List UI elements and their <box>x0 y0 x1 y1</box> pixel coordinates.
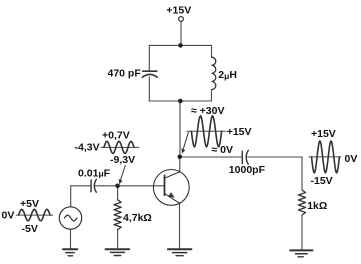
ground (emitter) <box>168 249 192 255</box>
svg-text:+5V: +5V <box>20 198 39 210</box>
svg-text:0V: 0V <box>345 153 358 165</box>
wire: input source to 0.01uF cap <box>71 186 91 207</box>
capacitor 1000pF (plates) <box>241 151 243 163</box>
wire: 4.7k resistor to ground <box>117 230 119 248</box>
waveform: output axis <box>309 156 341 158</box>
wire: emitter lead vertical to ground <box>179 203 181 249</box>
waveform: collector axis <box>187 130 226 132</box>
ground (4.7k resistor) <box>106 249 130 255</box>
svg-text:+15V: +15V <box>311 128 336 140</box>
svg-text:+0,7V: +0,7V <box>102 130 130 142</box>
waveform: base axis <box>101 146 139 148</box>
node: tank bottom junction <box>178 99 183 104</box>
capacitor 470 pF (tank, plates) <box>143 70 157 72</box>
wire: tank rectangle left edge upper <box>148 45 150 71</box>
transistor Q1 collector lead <box>165 172 180 178</box>
wire: tank rectangle right edge upper <box>211 45 213 57</box>
wire: base node down to 4.7k resistor <box>117 186 119 200</box>
waveform: output sine <box>312 141 340 173</box>
svg-text:-9,3V: -9,3V <box>110 154 135 166</box>
svg-text:1kΩ: 1kΩ <box>307 200 327 212</box>
resistor 4,7kOhm (zigzag) <box>114 200 121 230</box>
wire: tank rectangle right edge lower <box>211 90 213 101</box>
svg-text:0.01μF: 0.01μF <box>78 168 111 180</box>
svg-text:-5V: -5V <box>22 223 38 235</box>
power terminal +15V <box>179 17 184 22</box>
wire: +15V to tank top <box>180 22 182 46</box>
transistor Q1 base bar <box>164 175 166 195</box>
wire: tank rectangle left edge lower <box>148 77 150 101</box>
svg-text:4,7kΩ: 4,7kΩ <box>123 212 152 224</box>
svg-text:-4,3V: -4,3V <box>75 142 100 154</box>
wire: tank rectangle top edge <box>149 44 211 46</box>
waveform: collector sine <box>191 116 221 147</box>
wire: tank rectangle bottom edge <box>149 100 211 102</box>
transistor Q1 emitter lead <box>165 193 180 203</box>
svg-text:≈ 0V: ≈ 0V <box>212 144 234 156</box>
ground (1k resistor) <box>290 250 312 256</box>
node: tank top junction <box>178 43 183 48</box>
transistor Q1 emitter arrow <box>168 192 175 197</box>
svg-text:1000pF: 1000pF <box>229 164 266 176</box>
wire: collector lead vertical <box>179 157 181 172</box>
node: collector junction <box>178 155 183 160</box>
resistor 1kOhm (zigzag) <box>298 190 305 215</box>
svg-text:2μH: 2μH <box>218 69 237 81</box>
waveform: base sine <box>104 141 134 153</box>
wire: collector node to output (horizontal) <box>180 156 242 158</box>
arrow: base waveform to base node <box>119 166 126 185</box>
source V1 circle <box>59 207 81 229</box>
svg-text:+15V: +15V <box>227 126 252 138</box>
svg-text:-15V: -15V <box>311 175 333 187</box>
waveform: input sine <box>19 209 50 220</box>
svg-text:≈ +30V: ≈ +30V <box>191 105 225 117</box>
inductor 2uH (4 bumps) <box>212 57 216 89</box>
svg-text:0V: 0V <box>2 209 15 221</box>
wire: source to ground <box>70 229 72 248</box>
wire: 1k resistor to ground <box>301 215 303 250</box>
node: base junction <box>115 184 120 189</box>
capacitor 0.01 uF (plates) <box>90 180 92 192</box>
wire: base node to transistor base <box>95 185 164 187</box>
svg-text:+15V: +15V <box>166 5 191 17</box>
ground (source) <box>63 249 77 256</box>
transistor Q1 circle <box>153 170 189 206</box>
waveform: input axis <box>16 214 53 216</box>
wire: 1000pF to output corner <box>248 157 302 190</box>
arrow: collector waveform to collector node <box>182 133 189 154</box>
svg-text:470 pF: 470 pF <box>108 67 142 79</box>
wire: tank bottom to collector node <box>179 101 181 157</box>
source V1 sine symbol <box>65 215 78 221</box>
